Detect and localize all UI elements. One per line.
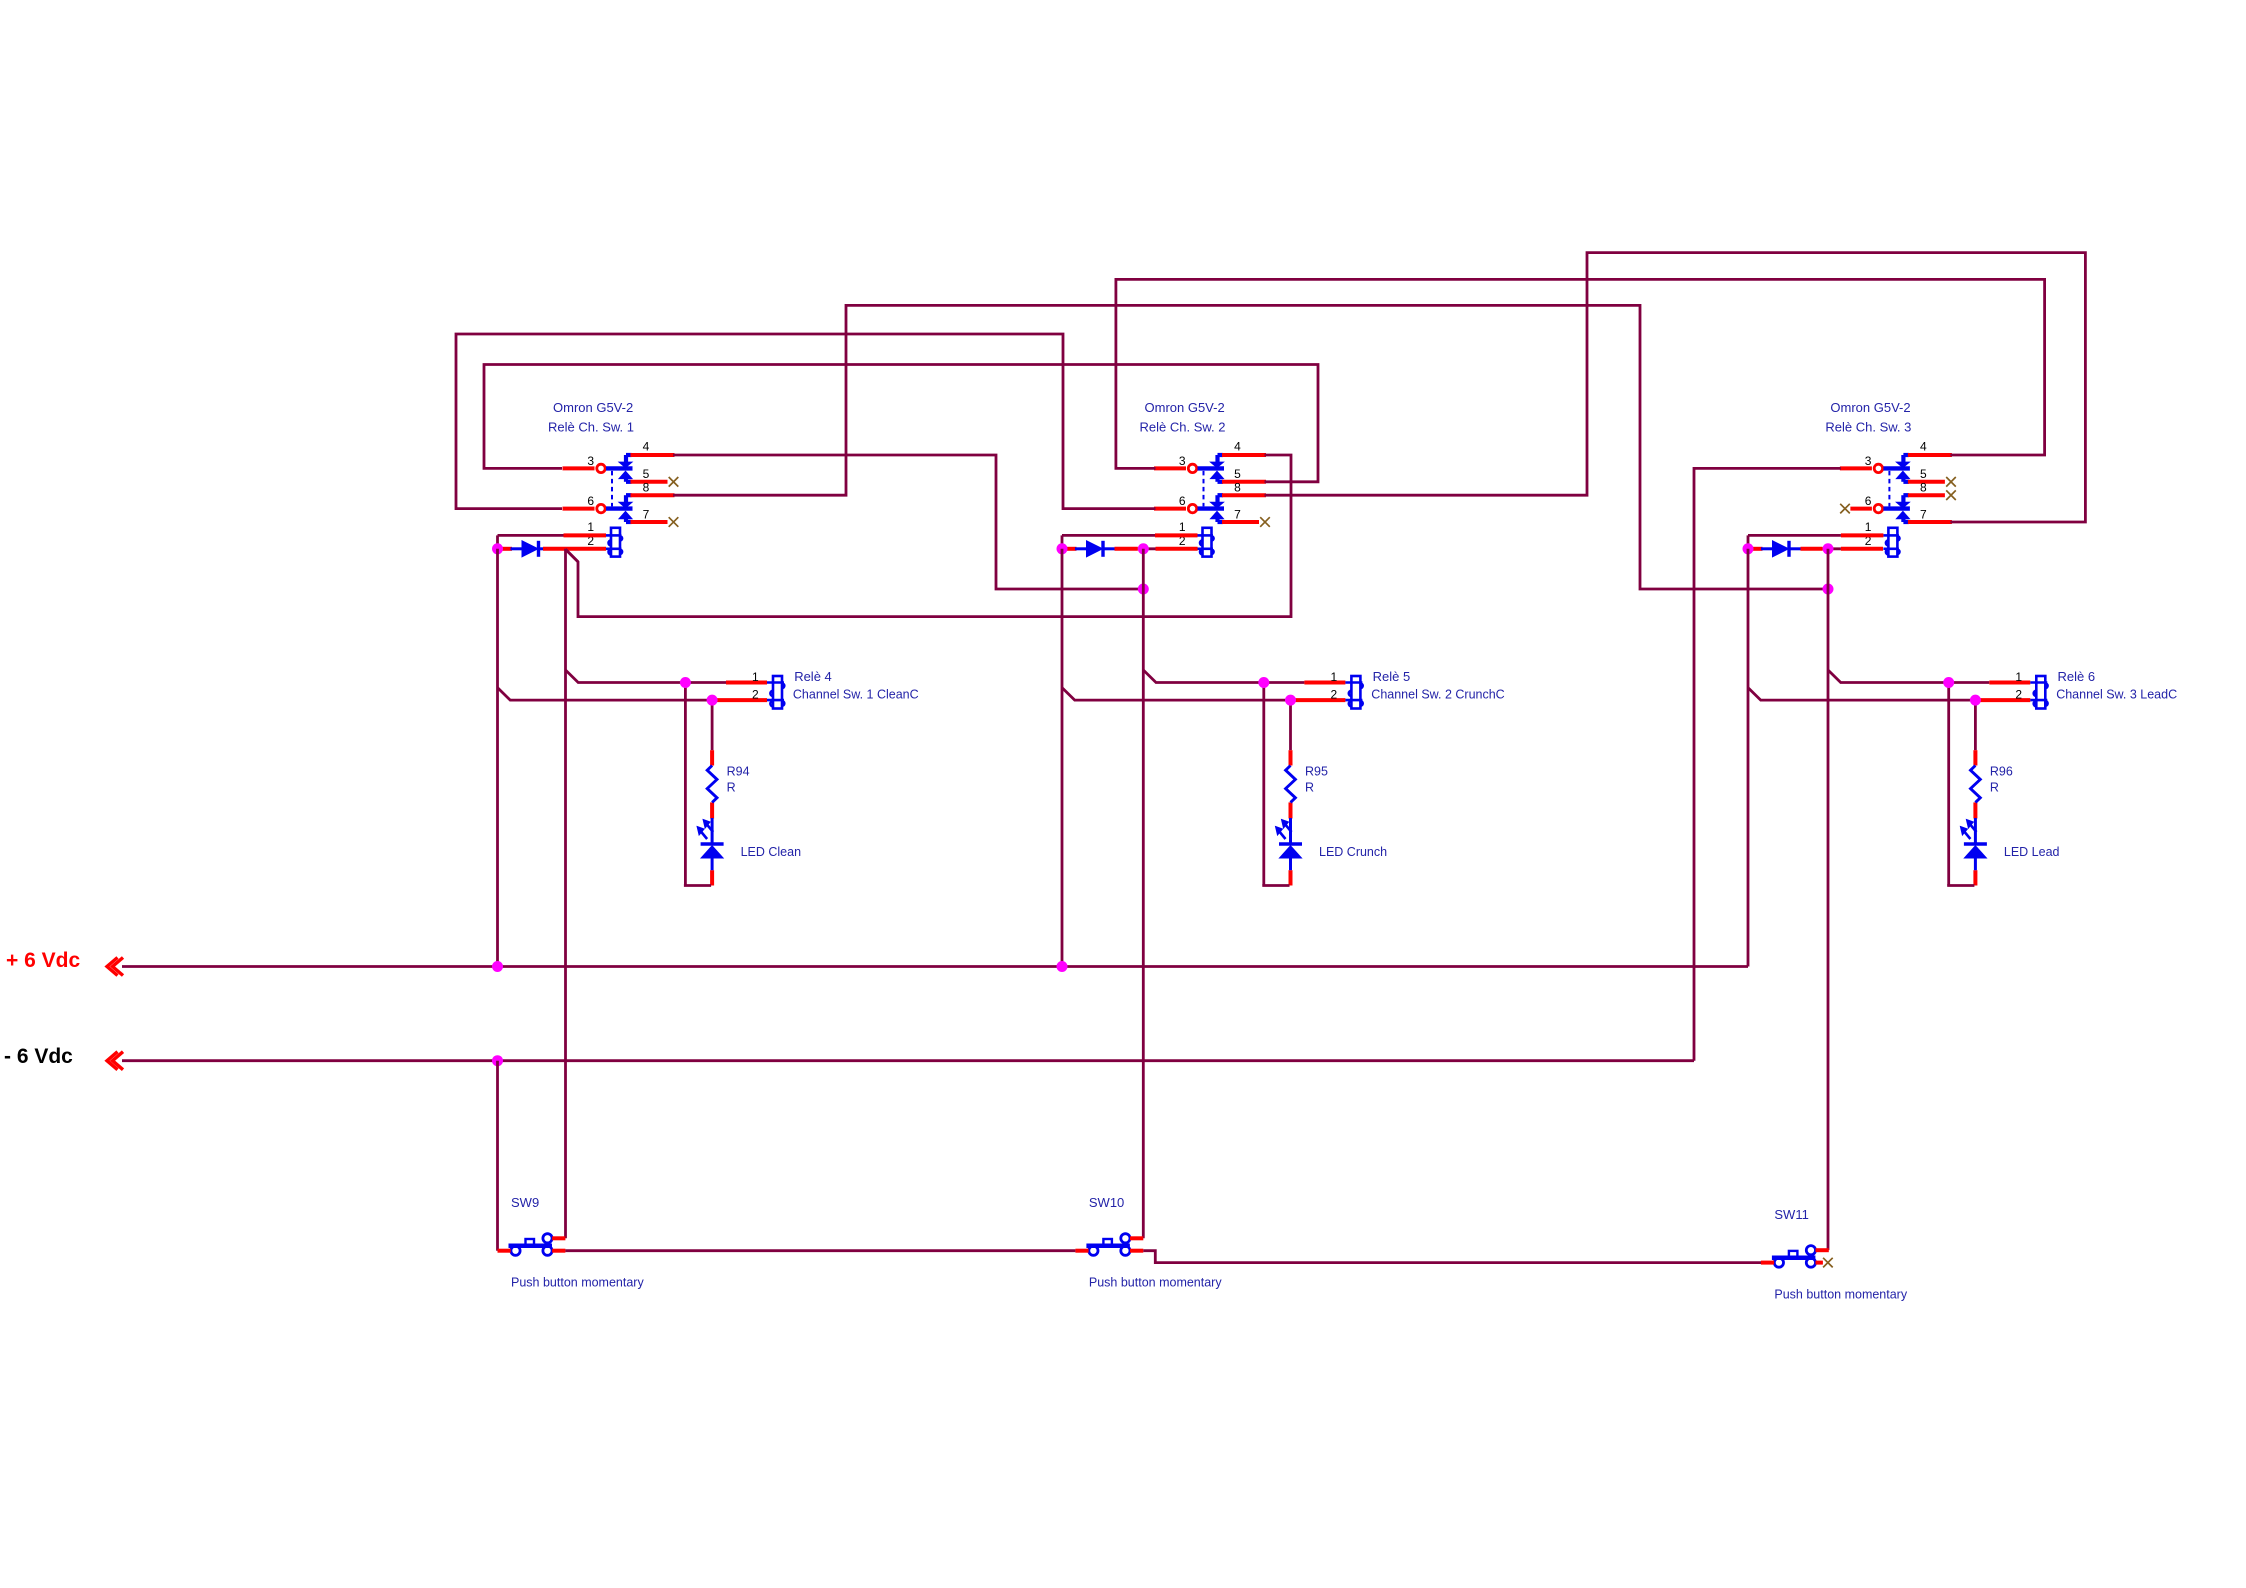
svg-text:4: 4 [1234, 439, 1241, 453]
resistor R94 [707, 765, 749, 803]
relay Relè Ch. Sw. 3 (Omron G5V-2) [1825, 400, 1952, 557]
svg-text:R: R [1990, 781, 1999, 795]
svg-text:6: 6 [1179, 494, 1186, 508]
svg-text:Relè 4: Relè 4 [794, 669, 832, 684]
switch body SW10 [1075, 1234, 1143, 1256]
junction dots of Relè 4 [680, 677, 718, 706]
connector Relè 4 (Channel Sw. 1 CleanC) with LED branch [685, 683, 767, 701]
wire net ch1.pin4 to ch2 coil node B [673, 455, 1143, 589]
svg-text:Relè Ch. Sw. 1: Relè Ch. Sw. 1 [548, 420, 634, 435]
wire coil pin2 ch2 [1115, 547, 1198, 551]
wire net ch2.pin8 to ch3.pin7 [1265, 253, 2086, 522]
svg-text:1: 1 [1330, 670, 1337, 684]
junction dot ch3 coil drive [1823, 584, 1834, 595]
connector Relè 5 (Channel Sw. 2 CrunchC) with LED branch [1264, 683, 1346, 701]
pin numbers of Relè 5 [1330, 670, 1337, 702]
svg-text:5: 5 [643, 467, 650, 481]
svg-text:Omron G5V-2: Omron G5V-2 [1145, 400, 1225, 415]
svg-text:4: 4 [1920, 439, 1927, 453]
svg-text:Omron G5V-2: Omron G5V-2 [1830, 400, 1910, 415]
svg-text:Channel Sw. 1 CleanC: Channel Sw. 1 CleanC [793, 688, 919, 702]
svg-text:R: R [727, 781, 736, 795]
wire vertical ch1 coil node B to SW9 with connector pin1 branch [566, 549, 687, 1239]
junction dots of Relè 6 [1943, 677, 1981, 706]
2-pin connector symbol [2030, 676, 2047, 709]
junction dots ch2 coil nodes [1057, 543, 1149, 554]
pin numbers of Relè 4 [752, 670, 759, 702]
flyback diode of relay coil 1 [502, 541, 551, 557]
svg-text:3: 3 [587, 454, 594, 468]
push button SW11 (momentary) [1761, 1207, 1908, 1302]
wire vertical ch2 coil node A to +6V rail with LED pin2 branch [1062, 549, 1291, 967]
2-pin connector symbol [1345, 676, 1362, 709]
wire net ch1.pin6 to ch2.pin6 [456, 334, 1156, 509]
switch body SW11 [1761, 1246, 1829, 1268]
junction dots ch3 coil nodes [1743, 543, 1834, 554]
right terminal stub of SW9 [552, 1249, 565, 1253]
coil of relay 3 (pins 1,2) [1883, 528, 1899, 557]
label Omron G5V-2 / Relè Ch. Sw. 2 [1140, 400, 1226, 435]
contact pole 2 of relay 3 (pins 6-8-7) [1850, 495, 1952, 522]
pin numbers 3,4,5,8,6,7,1,2 of relay 2 [1179, 439, 1241, 547]
svg-text:5: 5 [1920, 467, 1927, 481]
svg-text:Channel Sw. 3 LeadC: Channel Sw. 3 LeadC [2056, 688, 2177, 702]
svg-text:Relè Ch. Sw. 3: Relè Ch. Sw. 3 [1825, 420, 1911, 435]
pin 1 lead of relay 3 coil [1841, 533, 1884, 537]
coil of relay 2 (pins 1,2) [1198, 528, 1214, 557]
svg-text:8: 8 [1234, 480, 1241, 494]
svg-text:4: 4 [643, 439, 650, 453]
svg-text:2: 2 [2015, 688, 2022, 702]
port chevron +6Vdc [107, 958, 123, 976]
mechanical link (dashed) of relay 1 [611, 471, 613, 507]
svg-text:6: 6 [1865, 494, 1872, 508]
wire LED branch of Relè 6 [1947, 683, 1975, 886]
svg-text:7: 7 [1234, 507, 1241, 521]
port chevron -6Vdc [107, 1052, 123, 1070]
resistor R95 [1286, 765, 1328, 803]
pin 1 lead of relay 2 coil [1155, 533, 1198, 537]
wire vertical ch2 coil node B to SW10 with connector pin1 branch [1143, 549, 1264, 1239]
no-connect X ch3 pin6 [1840, 504, 1850, 514]
wire vertical ch3 coil node B to SW11 with connector pin1 branch [1828, 549, 1950, 1250]
wire -6Vdc rail [122, 1059, 1694, 1062]
wire net ch3.pin3 to -6Vdc rail [1694, 468, 1841, 1060]
pin numbers 3,4,5,8,6,7,1,2 of relay 3 [1865, 439, 1927, 547]
svg-text:R95: R95 [1305, 765, 1328, 779]
contact pole 2 of relay 1 (pins 6-8-7) [563, 495, 675, 522]
wire net ch2.pin4 to ch1 coil node B [566, 455, 1292, 617]
svg-text:Push button momentary: Push button momentary [511, 1276, 644, 1290]
wire vertical ch3 coil node A to +6V rail end with LED pin2 branch [1748, 549, 1977, 967]
wire coil pin2 ch1 [543, 547, 606, 551]
flyback diode of relay coil 3 [1752, 541, 1801, 557]
svg-text:3: 3 [1179, 454, 1186, 468]
svg-text:7: 7 [1920, 507, 1927, 521]
junction dot on -6Vdc rail [492, 1055, 503, 1066]
labels for Relè 4 [793, 669, 919, 702]
no-connect X ch1 pin7 [669, 517, 679, 527]
labels for Relè 6 [2056, 669, 2177, 702]
svg-text:1: 1 [2015, 670, 2022, 684]
contact pole 1 of relay 3 (pins 3-4-5) [1840, 455, 1952, 482]
svg-text:SW9: SW9 [511, 1195, 539, 1210]
svg-text:3: 3 [1865, 454, 1872, 468]
svg-text:2: 2 [752, 688, 759, 702]
svg-text:1: 1 [752, 670, 759, 684]
connector Relè 6 (Channel Sw. 3 LeadC) with LED branch [1949, 683, 2031, 701]
relay Relè Ch. Sw. 2 (Omron G5V-2) [1140, 400, 1267, 557]
wire coil pin2 ch3 [1801, 547, 1884, 551]
svg-text:5: 5 [1234, 467, 1241, 481]
svg-text:Push button momentary: Push button momentary [1774, 1288, 1907, 1302]
junction dot ch2 coil drive [1138, 584, 1149, 595]
wire net ch2.pin3 to ch3.pin4 [1116, 279, 2045, 468]
svg-text:Relè 5: Relè 5 [1373, 669, 1411, 684]
svg-text:R: R [1305, 781, 1314, 795]
svg-text:R96: R96 [1990, 765, 2013, 779]
pin numbers 3,4,5,8,6,7,1,2 of relay 1 [587, 439, 649, 547]
wire coil pin1 corner ch1 + junction [498, 535, 564, 548]
svg-text:- 6 Vdc: - 6 Vdc [4, 1045, 73, 1068]
no-connect X ch3 pin5 [1946, 477, 1956, 487]
LED LED Crunch [1276, 818, 1388, 870]
wire +6Vdc rail [122, 965, 1748, 968]
svg-text:LED Clean: LED Clean [741, 845, 801, 859]
label Omron G5V-2 / Relè Ch. Sw. 1 [548, 400, 634, 435]
no-connect X on right terminal of SW11 [1816, 1258, 1833, 1268]
svg-text:Omron G5V-2: Omron G5V-2 [553, 400, 633, 415]
svg-text:Channel Sw. 2 CrunchC: Channel Sw. 2 CrunchC [1371, 688, 1504, 702]
switch body SW9 [498, 1234, 566, 1256]
LED LED Clean [697, 818, 801, 870]
contact pole 1 of relay 2 (pins 3-4-5) [1154, 455, 1266, 482]
contact pole 2 of relay 2 (pins 6-8-7) [1154, 495, 1266, 522]
mechanical link (dashed) of relay 2 [1203, 471, 1205, 507]
mechanical link (dashed) of relay 3 [1888, 471, 1890, 507]
svg-text:6: 6 [587, 494, 594, 508]
svg-text:SW11: SW11 [1774, 1207, 1808, 1222]
push button SW10 (momentary) [1075, 1195, 1222, 1290]
labels for Relè 5 [1371, 669, 1504, 702]
svg-text:2: 2 [1330, 688, 1337, 702]
wire LED branch of Relè 4 [684, 683, 712, 886]
wire coil pin1 corner ch2 + junction [1062, 535, 1155, 548]
svg-text:7: 7 [643, 507, 650, 521]
svg-text:1: 1 [1865, 520, 1872, 534]
junction dots on +6Vdc rail [492, 961, 1068, 972]
svg-text:R94: R94 [727, 765, 750, 779]
push button SW9 (momentary) [498, 1195, 645, 1290]
wire -6Vdc rail to SW9 left terminal [496, 1061, 499, 1251]
svg-text:8: 8 [1920, 480, 1927, 494]
svg-text:1: 1 [587, 520, 594, 534]
svg-text:Push button momentary: Push button momentary [1089, 1276, 1222, 1290]
label Omron G5V-2 / Relè Ch. Sw. 3 [1825, 400, 1911, 435]
relay Relè Ch. Sw. 1 (Omron G5V-2) [548, 400, 675, 557]
no-connect X ch2 pin7 [1260, 517, 1270, 527]
svg-text:Relè 6: Relè 6 [2058, 669, 2096, 684]
junction dots of Relè 5 [1258, 677, 1296, 706]
wire switch chain SW9 to SW10 [565, 1249, 1075, 1252]
flyback diode of relay coil 2 [1066, 541, 1115, 557]
resistor R96 [1971, 765, 2013, 803]
no-connect X ch1 pin5 [669, 477, 679, 487]
wire coil pin1 corner ch3 + junction [1748, 535, 1841, 548]
wire vertical ch1 coil node A to +6V rail with LED pin2 branch [498, 549, 713, 967]
wire net ch1.pin3 to ch2.pin5 [484, 365, 1318, 482]
pin numbers of Relè 6 [2015, 670, 2022, 702]
svg-text:8: 8 [643, 480, 650, 494]
junction dot ch1 coil node A [492, 543, 503, 554]
svg-text:SW10: SW10 [1089, 1195, 1124, 1210]
2-pin connector symbol [767, 676, 784, 709]
svg-text:+ 6 Vdc: + 6 Vdc [6, 949, 80, 972]
wire net ch1.pin8 to ch3 coil node B [673, 305, 1828, 589]
svg-text:LED Crunch: LED Crunch [1319, 845, 1387, 859]
LED LED Lead [1960, 818, 2059, 870]
svg-text:1: 1 [1179, 520, 1186, 534]
right terminal stub of SW10 [1130, 1249, 1143, 1253]
coil of relay 1 (pins 1,2) [606, 528, 622, 557]
pin 1 lead of relay 1 coil [564, 533, 607, 537]
contact pole 1 of relay 1 (pins 3-4-5) [563, 455, 675, 482]
wire LED branch of Relè 5 [1262, 683, 1290, 886]
wire switch chain SW10 to SW11 [1143, 1251, 1761, 1263]
svg-text:Relè Ch. Sw. 2: Relè Ch. Sw. 2 [1140, 420, 1226, 435]
svg-text:LED Lead: LED Lead [2004, 845, 2060, 859]
no-connect X ch3 pin8 [1946, 490, 1956, 500]
